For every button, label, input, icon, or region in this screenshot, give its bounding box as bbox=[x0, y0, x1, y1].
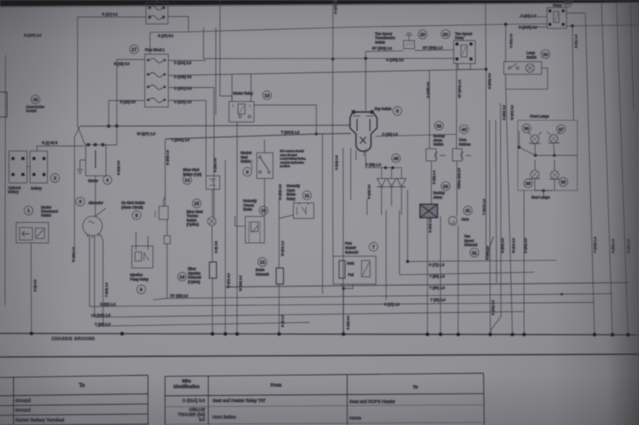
svg-text:W (2M) 2.0: W (2M) 2.0 bbox=[239, 275, 243, 291]
svg-text:W (2U) 1.0: W (2U) 1.0 bbox=[281, 241, 285, 256]
svg-text:B (2W) 2.0: B (2W) 2.0 bbox=[524, 238, 528, 253]
svg-text:11: 11 bbox=[305, 193, 310, 198]
svg-text:O (7Z) 1.0: O (7Z) 1.0 bbox=[429, 263, 445, 267]
svg-text:(Option): (Option) bbox=[187, 223, 199, 227]
svg-text:Switch: Switch bbox=[241, 160, 251, 164]
svg-text:O (4A) 1.0: O (4A) 1.0 bbox=[521, 14, 537, 18]
svg-text:O (1W6) 0.9: O (1W6) 0.9 bbox=[519, 25, 538, 29]
svg-text:Wire: Wire bbox=[182, 379, 192, 384]
svg-text:Pull: Pull bbox=[348, 273, 354, 277]
svg-text:Buttons: Buttons bbox=[459, 142, 471, 146]
svg-text:Socket: Socket bbox=[26, 109, 36, 113]
svg-text:LG (14F) 1.0: LG (14F) 1.0 bbox=[91, 314, 110, 318]
svg-text:W (2W) 2.0: W (2W) 2.0 bbox=[278, 184, 282, 200]
svg-text:B (8) 2.0: B (8) 2.0 bbox=[214, 241, 218, 253]
svg-text:39: 39 bbox=[561, 180, 567, 185]
svg-text:W (2V) 2.0: W (2V) 2.0 bbox=[510, 105, 514, 120]
svg-text:R (1B) 5.0: R (1B) 5.0 bbox=[114, 62, 130, 66]
svg-text:7: 7 bbox=[372, 245, 375, 250]
svg-text:8: 8 bbox=[396, 109, 399, 114]
svg-text:Shutoff: Shutoff bbox=[345, 246, 356, 250]
svg-text:17: 17 bbox=[131, 47, 137, 52]
svg-text:R (1F) 5.0: R (1F) 5.0 bbox=[158, 34, 173, 38]
svg-text:Y (3G) 1.0: Y (3G) 1.0 bbox=[95, 322, 111, 326]
svg-text:(Alarm Circuit): (Alarm Circuit) bbox=[121, 206, 143, 210]
svg-text:5: 5 bbox=[135, 213, 138, 218]
svg-text:Switch: Switch bbox=[41, 214, 51, 218]
svg-text:O (1S5) 2.0: O (1S5) 2.0 bbox=[426, 82, 430, 98]
svg-text:3: 3 bbox=[79, 199, 82, 204]
svg-text:R (1D) 3.0: R (1D) 3.0 bbox=[102, 13, 118, 17]
svg-text:S (2S2) 3.0: S (2S2) 3.0 bbox=[488, 73, 492, 89]
svg-text:Y (2E) 1.0: Y (2E) 1.0 bbox=[366, 163, 381, 167]
svg-text:13: 13 bbox=[264, 93, 270, 98]
svg-text:37: 37 bbox=[558, 127, 564, 132]
svg-text:O (4A) 1.0: O (4A) 1.0 bbox=[509, 33, 513, 48]
svg-text:Alternator: Alternator bbox=[88, 201, 104, 205]
svg-text:Fuse Block 1: Fuse Block 1 bbox=[145, 48, 165, 52]
svg-text:Button (Opt): Button (Opt) bbox=[183, 172, 201, 176]
svg-text:Horn Button: Horn Button bbox=[213, 415, 237, 420]
svg-text:GY (2R3) 1.0: GY (2R3) 1.0 bbox=[372, 47, 392, 51]
svg-text:To: To bbox=[79, 383, 85, 389]
svg-text:Battery: Battery bbox=[31, 187, 42, 191]
svg-text:O/Blue (64) 2.0: O/Blue (64) 2.0 bbox=[457, 168, 461, 189]
svg-text:1: 1 bbox=[27, 208, 30, 213]
svg-text:Switch: Switch bbox=[527, 55, 537, 59]
svg-text:B (30) 2.0: B (30) 2.0 bbox=[346, 316, 350, 330]
svg-text:32: 32 bbox=[436, 123, 442, 128]
svg-text:Y (3S) 1.0: Y (3S) 1.0 bbox=[429, 275, 444, 279]
svg-text:B (1U) 1.0: B (1U) 1.0 bbox=[428, 218, 432, 232]
svg-text:34: 34 bbox=[543, 52, 549, 57]
svg-text:B (2X) 1.0: B (2X) 1.0 bbox=[611, 239, 615, 253]
svg-text:O (10B) 3.0: O (10B) 3.0 bbox=[174, 75, 192, 79]
svg-text:S (2L) 1.0: S (2L) 1.0 bbox=[574, 34, 578, 48]
svg-text:Switch: Switch bbox=[433, 143, 443, 147]
svg-text:6: 6 bbox=[140, 287, 143, 292]
svg-text:Horn: Horn bbox=[462, 218, 469, 222]
svg-text:S (2S) 3.0: S (2S) 3.0 bbox=[486, 246, 490, 260]
svg-text:O (1S) 2.0: O (1S) 2.0 bbox=[367, 184, 371, 199]
svg-text:O (1G) 1.0: O (1G) 1.0 bbox=[335, 155, 339, 170]
svg-text:W (2T) 2.0: W (2T) 2.0 bbox=[227, 273, 231, 288]
svg-text:From: From bbox=[271, 382, 282, 387]
svg-text:9: 9 bbox=[246, 170, 249, 175]
svg-text:46: 46 bbox=[393, 156, 399, 161]
svg-text:Horns: Horns bbox=[349, 416, 362, 421]
svg-text:Pump Relay: Pump Relay bbox=[130, 278, 149, 282]
svg-text:W 2(1P) 1.0: W 2(1P) 1.0 bbox=[137, 132, 155, 136]
svg-text:Seat and ROPS Heater: Seat and ROPS Heater bbox=[349, 399, 395, 404]
svg-text:O (1S3) 2.0: O (1S3) 2.0 bbox=[386, 58, 404, 62]
svg-text:B (2W) 2.0: B (2W) 2.0 bbox=[501, 238, 505, 253]
svg-text:Relay: Relay bbox=[553, 4, 562, 8]
svg-text:Battery: Battery bbox=[8, 190, 19, 194]
svg-text:RY (2B) 2.0: RY (2B) 2.0 bbox=[170, 294, 188, 298]
svg-text:(Option): (Option) bbox=[188, 280, 200, 284]
svg-text:41: 41 bbox=[465, 208, 471, 213]
svg-text:O (11D) 1.0: O (11D) 1.0 bbox=[174, 100, 192, 104]
svg-text:B (1W) 1.0: B (1W) 1.0 bbox=[166, 150, 170, 165]
svg-text:Y (2AB) 1.0: Y (2AB) 1.0 bbox=[593, 237, 597, 253]
svg-text:30: 30 bbox=[443, 32, 449, 37]
svg-text:O (11A) 2.0: O (11A) 2.0 bbox=[174, 61, 191, 65]
svg-text:Relay: Relay bbox=[455, 36, 464, 40]
svg-text:Starter Relay: Starter Relay bbox=[233, 91, 253, 95]
svg-text:Solenoid: Solenoid bbox=[345, 251, 358, 255]
svg-text:O (3Z) 1.0: O (3Z) 1.0 bbox=[100, 302, 116, 306]
svg-text:29: 29 bbox=[420, 32, 426, 37]
svg-text:Backup: Backup bbox=[433, 191, 444, 195]
svg-text:B (28) 1.4: B (28) 1.4 bbox=[432, 170, 436, 184]
svg-text:R (1) 62 B: R (1) 62 B bbox=[42, 141, 58, 145]
svg-text:36: 36 bbox=[524, 126, 530, 131]
svg-text:Y (3G) 1.0: Y (3G) 1.0 bbox=[105, 283, 109, 297]
svg-text:15: 15 bbox=[194, 201, 200, 206]
svg-text:31: 31 bbox=[472, 250, 478, 255]
svg-text:Ground: Ground bbox=[15, 408, 31, 413]
svg-text:33: 33 bbox=[443, 184, 449, 189]
svg-text:O (1S1) 2.0: O (1S1) 2.0 bbox=[334, 0, 338, 14]
svg-text:35: 35 bbox=[565, 1, 571, 6]
svg-text:Brake: Brake bbox=[256, 268, 265, 272]
svg-text:16: 16 bbox=[180, 275, 186, 280]
svg-text:Ground: Ground bbox=[15, 398, 31, 403]
svg-text:O (10C) 3.0: O (10C) 3.0 bbox=[174, 86, 192, 90]
svg-text:Y (2/AA) 1.0: Y (2/AA) 1.0 bbox=[281, 130, 300, 134]
svg-text:W (2P) 1.0: W (2P) 1.0 bbox=[72, 247, 76, 262]
svg-text:O (1Z) 1.0: O (1Z) 1.0 bbox=[384, 302, 400, 306]
svg-text:GY (2R4) 1.0: GY (2R4) 1.0 bbox=[458, 80, 462, 98]
svg-text:Key Switch: Key Switch bbox=[375, 107, 392, 111]
svg-text:B (8B) 3.0: B (8B) 3.0 bbox=[213, 158, 217, 172]
svg-text:40: 40 bbox=[461, 127, 467, 132]
svg-text:Identification: Identification bbox=[173, 384, 199, 389]
svg-text:10: 10 bbox=[261, 208, 267, 213]
svg-text:Hold: Hold bbox=[347, 262, 354, 266]
svg-text:38: 38 bbox=[526, 181, 532, 186]
svg-text:Solenoid: Solenoid bbox=[256, 273, 269, 277]
svg-text:O (1S) 1.0: O (1S) 1.0 bbox=[382, 132, 398, 136]
svg-text:Seat and Heater Relay T87: Seat and Heater Relay T87 bbox=[213, 398, 267, 403]
svg-text:Y (3R) 1.0: Y (3R) 1.0 bbox=[429, 286, 445, 290]
svg-text:Y (3Z) 1.0: Y (3Z) 1.0 bbox=[430, 298, 445, 302]
svg-text:3.0: 3.0 bbox=[199, 417, 206, 422]
svg-text:12: 12 bbox=[260, 260, 266, 265]
svg-text:Brake: Brake bbox=[243, 208, 252, 212]
svg-text:2: 2 bbox=[54, 176, 57, 181]
svg-text:R (1E) 5.0: R (1E) 5.0 bbox=[120, 100, 136, 104]
svg-text:Y (2AA) 1.0: Y (2AA) 1.0 bbox=[482, 199, 486, 215]
svg-text:Solenoid: Solenoid bbox=[464, 243, 477, 247]
svg-text:Fuel: Fuel bbox=[345, 242, 352, 246]
svg-text:B (2W) 2.0: B (2W) 2.0 bbox=[502, 105, 506, 120]
svg-text:Y (2/AA) 1.0: Y (2/AA) 1.0 bbox=[171, 138, 190, 142]
svg-text:B (1G) 3.0: B (1G) 3.0 bbox=[117, 160, 121, 175]
svg-text:Switch: Switch bbox=[375, 40, 385, 44]
svg-text:4: 4 bbox=[106, 178, 109, 183]
svg-text:Alarm: Alarm bbox=[433, 196, 442, 200]
svg-text:B (2Y) 1.0: B (2Y) 1.0 bbox=[627, 239, 631, 253]
svg-text:Rear Lamps: Rear Lamps bbox=[531, 196, 550, 200]
svg-text:Injection: Injection bbox=[130, 273, 143, 277]
svg-text:Starter Battery Terminal: Starter Battery Terminal bbox=[15, 417, 64, 422]
svg-text:B (2W) 2.0: B (2W) 2.0 bbox=[491, 300, 495, 315]
svg-text:42: 42 bbox=[33, 97, 39, 102]
svg-text:Front Lamps: Front Lamps bbox=[530, 115, 549, 119]
svg-text:O (61A) 3.0: O (61A) 3.0 bbox=[182, 398, 205, 403]
svg-text:position: position bbox=[280, 164, 290, 168]
svg-text:GY (2R3) 1.0: GY (2R3) 1.0 bbox=[423, 46, 443, 50]
svg-text:CHASSIS GROUND: CHASSIS GROUND bbox=[52, 336, 96, 341]
svg-text:To: To bbox=[413, 385, 418, 390]
svg-text:B (0) 3.0: B (0) 3.0 bbox=[33, 279, 37, 291]
svg-text:Starter: Starter bbox=[88, 179, 99, 183]
svg-text:B (3) 1.0: B (3) 1.0 bbox=[281, 315, 285, 327]
svg-text:14: 14 bbox=[185, 178, 191, 183]
svg-text:W (2V) 2.0: W (2V) 2.0 bbox=[512, 238, 516, 253]
svg-text:R (91P) 3.0: R (91P) 3.0 bbox=[24, 34, 41, 38]
svg-text:Relay: Relay bbox=[287, 197, 296, 201]
